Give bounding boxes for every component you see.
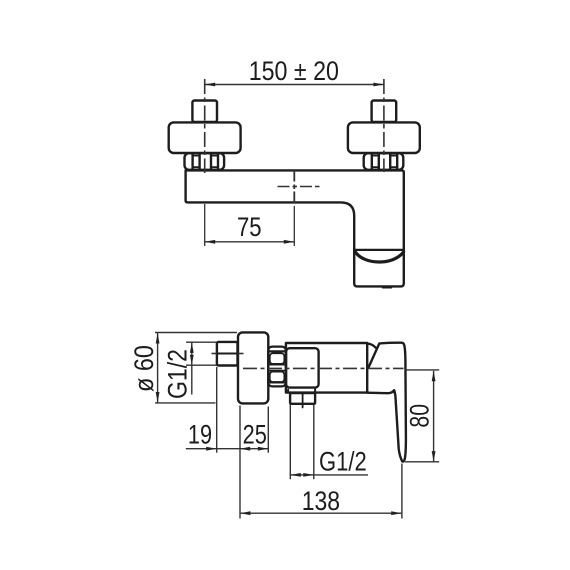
arrow dia60 top <box>156 333 160 344</box>
top view: right hex nut <box>364 153 404 170</box>
top view: left hex nut <box>185 153 225 170</box>
arrow 150 right <box>373 83 384 87</box>
nipple centerline tick left <box>212 353 217 355</box>
dim G12 left ext top <box>186 341 217 343</box>
side view: handle <box>367 343 406 462</box>
arrow 19 <box>206 447 217 451</box>
side view: cartridge dome arc <box>367 343 375 347</box>
centerline spout axis <box>293 170 295 182</box>
arrow 80 top <box>432 371 436 382</box>
dim dia60 line <box>157 333 159 403</box>
dim 19-25 line <box>186 448 268 450</box>
ext G12 bottom right <box>313 405 315 480</box>
svg-text:G1/2: G1/2 <box>163 349 193 399</box>
dim 75 line <box>205 241 295 243</box>
side view: valve block face <box>286 348 319 387</box>
dim dia60 extension top <box>155 332 237 334</box>
svg-text:75: 75 <box>237 212 262 242</box>
arrow 25 right <box>258 447 269 451</box>
arrow 80 bottom <box>432 451 436 462</box>
side view: outlet step <box>287 390 289 393</box>
arrow G12 left bottom <box>190 355 194 366</box>
ext 80 bottom <box>405 461 439 463</box>
arrow dia60 bottom <box>156 392 160 403</box>
arrow 138 right <box>391 511 402 515</box>
svg-text:19: 19 <box>188 419 212 449</box>
ext 80 top <box>406 369 440 371</box>
dim G12 left line <box>191 342 193 394</box>
dim 80 line <box>433 371 435 462</box>
ext 138 right <box>401 464 403 519</box>
ext 75 right <box>293 206 295 246</box>
handle inner spur <box>393 390 396 396</box>
centerline right union <box>383 79 385 172</box>
top view: aerator line <box>354 249 404 251</box>
arrow G12 bottom right <box>303 473 314 477</box>
svg-text:ø 60: ø 60 <box>129 345 159 392</box>
arrow 138 left <box>240 511 251 515</box>
top view: left union nipple <box>192 101 217 123</box>
ext 75 left <box>204 204 206 246</box>
svg-text:G1/2: G1/2 <box>319 447 367 477</box>
top view: left escutcheon flange <box>169 122 241 153</box>
svg-text:138: 138 <box>302 486 340 516</box>
svg-text:25: 25 <box>243 419 267 449</box>
dim 150 line <box>205 84 384 86</box>
side view: body barrel <box>286 343 367 393</box>
ext 19 left <box>216 367 218 453</box>
side view: escutcheon flange <box>238 332 268 403</box>
spout bottom tick <box>383 286 391 289</box>
top view: right escutcheon flange <box>348 122 420 153</box>
svg-text:80: 80 <box>404 404 434 428</box>
side view: hex nut <box>268 347 286 387</box>
arrow G12 left top <box>190 342 194 353</box>
top view: right union nipple <box>372 101 397 123</box>
dim dia60 extension bottom <box>155 402 216 404</box>
top view: aerator arc <box>355 252 403 262</box>
side view: outlet nipple <box>290 393 315 404</box>
center cross horizontal <box>278 186 322 188</box>
side view centerline <box>243 367 404 369</box>
ext G12 bottom left <box>289 405 291 480</box>
arrow 150 left <box>205 83 216 87</box>
arrow 75 left <box>205 240 216 244</box>
svg-text:150 ± 20: 150 ± 20 <box>249 56 339 86</box>
centerline left union <box>204 79 206 173</box>
dim G12 left ext bottom <box>186 364 217 366</box>
arrow 25 left <box>240 447 251 451</box>
ext 138 left / 19-25 shared <box>239 406 241 519</box>
side view: wall nipple <box>217 342 238 366</box>
arrow G12 bottom left <box>290 473 301 477</box>
nipple centerline tick right <box>238 353 244 355</box>
top view: body bar and spout outline <box>186 170 404 286</box>
ext 25 right <box>267 407 269 453</box>
arrow 75 right <box>284 240 295 244</box>
dim 138 line <box>240 512 402 514</box>
dim G12 bottom line + shelf <box>290 474 368 476</box>
